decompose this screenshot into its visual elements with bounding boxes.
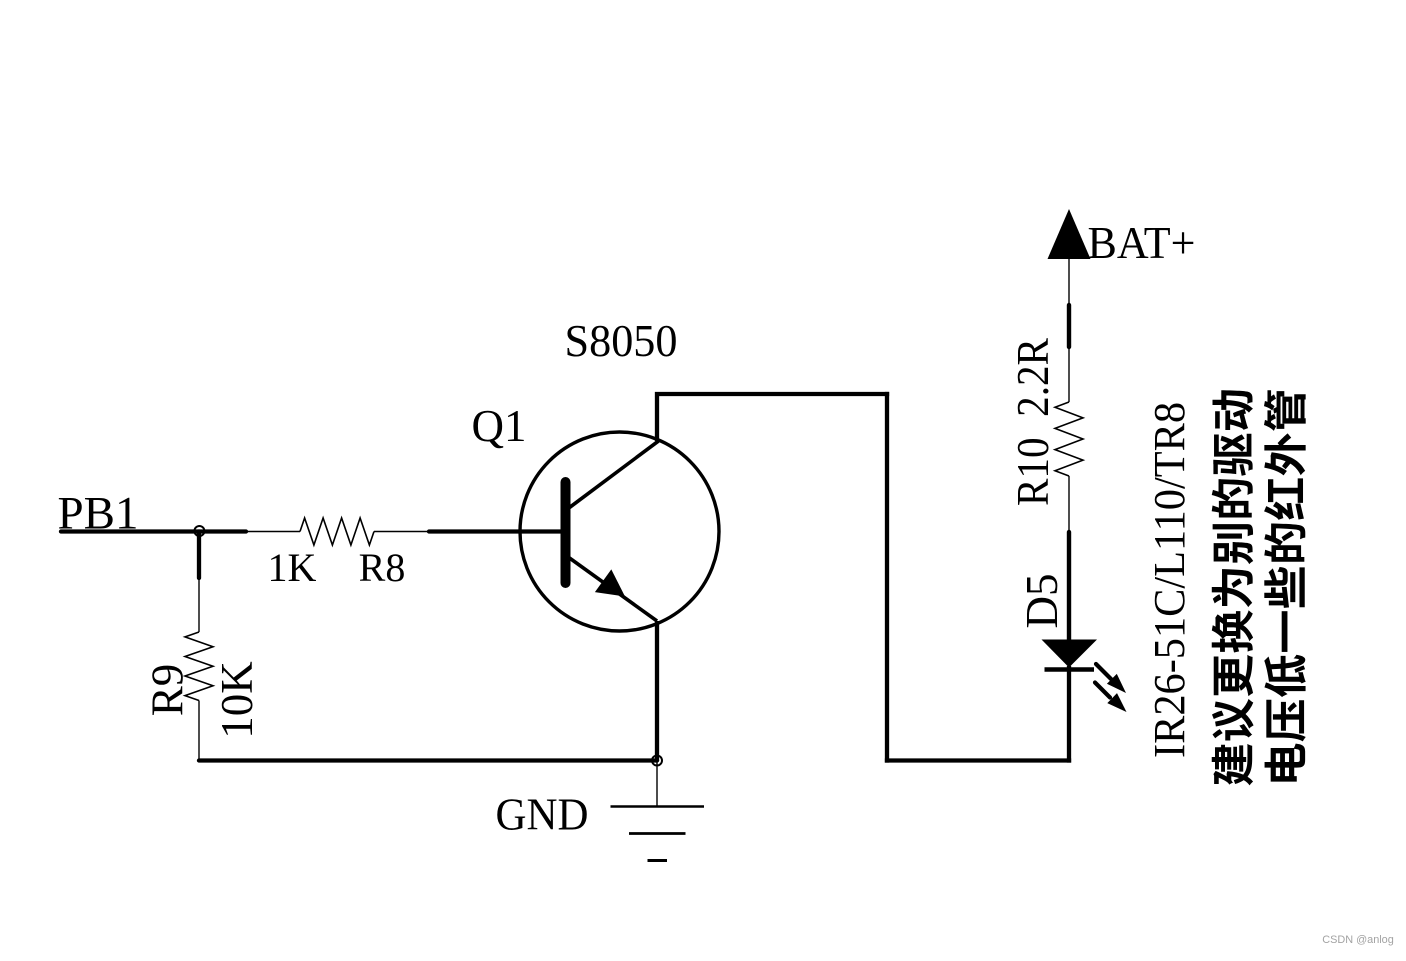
wire LED cathode up (1067, 668, 1071, 761)
note text: 电压低一些的红外管 (1264, 390, 1306, 781)
power symbol BAT+ triangle (1048, 209, 1091, 259)
diode D5 cathode bar (1045, 667, 1095, 672)
junction node A (PB1/R9) (197, 532, 201, 579)
wire PB1 horizontal (61, 529, 246, 533)
wire bottom-left horizontal (R9 to GND node) (199, 758, 657, 762)
transistor Q1 base bar (561, 482, 571, 583)
diode D5 emission arrow 2 (1095, 683, 1110, 698)
transistor Q1 emitter arrowhead (595, 569, 625, 596)
wire R8 right pin (374, 531, 429, 533)
svg-text:R8: R8 (359, 545, 406, 590)
wire right vertical (885, 394, 889, 761)
transistor Q1 circle (520, 432, 719, 631)
svg-text:10K: 10K (212, 661, 262, 739)
ground stub (656, 761, 658, 807)
wire BAT to R10 thick (1067, 305, 1071, 347)
ground bar 1 (611, 805, 705, 807)
svg-text:R10 2.2R: R10 2.2R (1007, 338, 1058, 506)
wire R10 bottom pin (1068, 476, 1070, 532)
junction node GND (652, 756, 662, 766)
resistor R9 (185, 632, 213, 701)
wire BAT pin (1068, 259, 1070, 303)
diode D5 triangle (1042, 640, 1098, 668)
svg-text:GND: GND (496, 790, 589, 840)
diode D5 emission arrow 1 (1096, 664, 1111, 679)
resistor R8 (300, 518, 374, 545)
svg-text:S8050: S8050 (565, 316, 678, 366)
wire bottom-right horizontal (887, 758, 1069, 762)
wire base thin segment (246, 531, 300, 533)
svg-text:D5: D5 (1017, 574, 1067, 629)
svg-text:BAT+: BAT+ (1088, 217, 1196, 268)
svg-text:IR26-51C/L110/TR8: IR26-51C/L110/TR8 (1145, 402, 1194, 758)
wire R10 to D5 thick (1067, 532, 1071, 642)
transistor Q1 collector diagonal (570, 441, 659, 508)
ground bar 3 (648, 859, 668, 862)
wire top horizontal (657, 392, 887, 396)
svg-text:CSDN @anlog: CSDN @anlog (1322, 934, 1394, 946)
wire R9 top pin (198, 578, 200, 632)
wire collector up (655, 396, 659, 441)
wire R9 bottom pin (198, 701, 200, 761)
ground bar 2 (629, 832, 686, 835)
svg-text:Q1: Q1 (472, 401, 527, 451)
note text: 建议更换为别的驱动 (1212, 390, 1254, 785)
wire emitter down (655, 621, 659, 761)
svg-text:R9: R9 (143, 664, 193, 717)
svg-text:1K: 1K (268, 545, 317, 590)
wire R10 top pin (1068, 347, 1070, 402)
resistor R10 (1055, 402, 1083, 476)
transistor Q1 emitter diagonal (570, 558, 658, 621)
wire base thick to Q1 (429, 529, 566, 533)
